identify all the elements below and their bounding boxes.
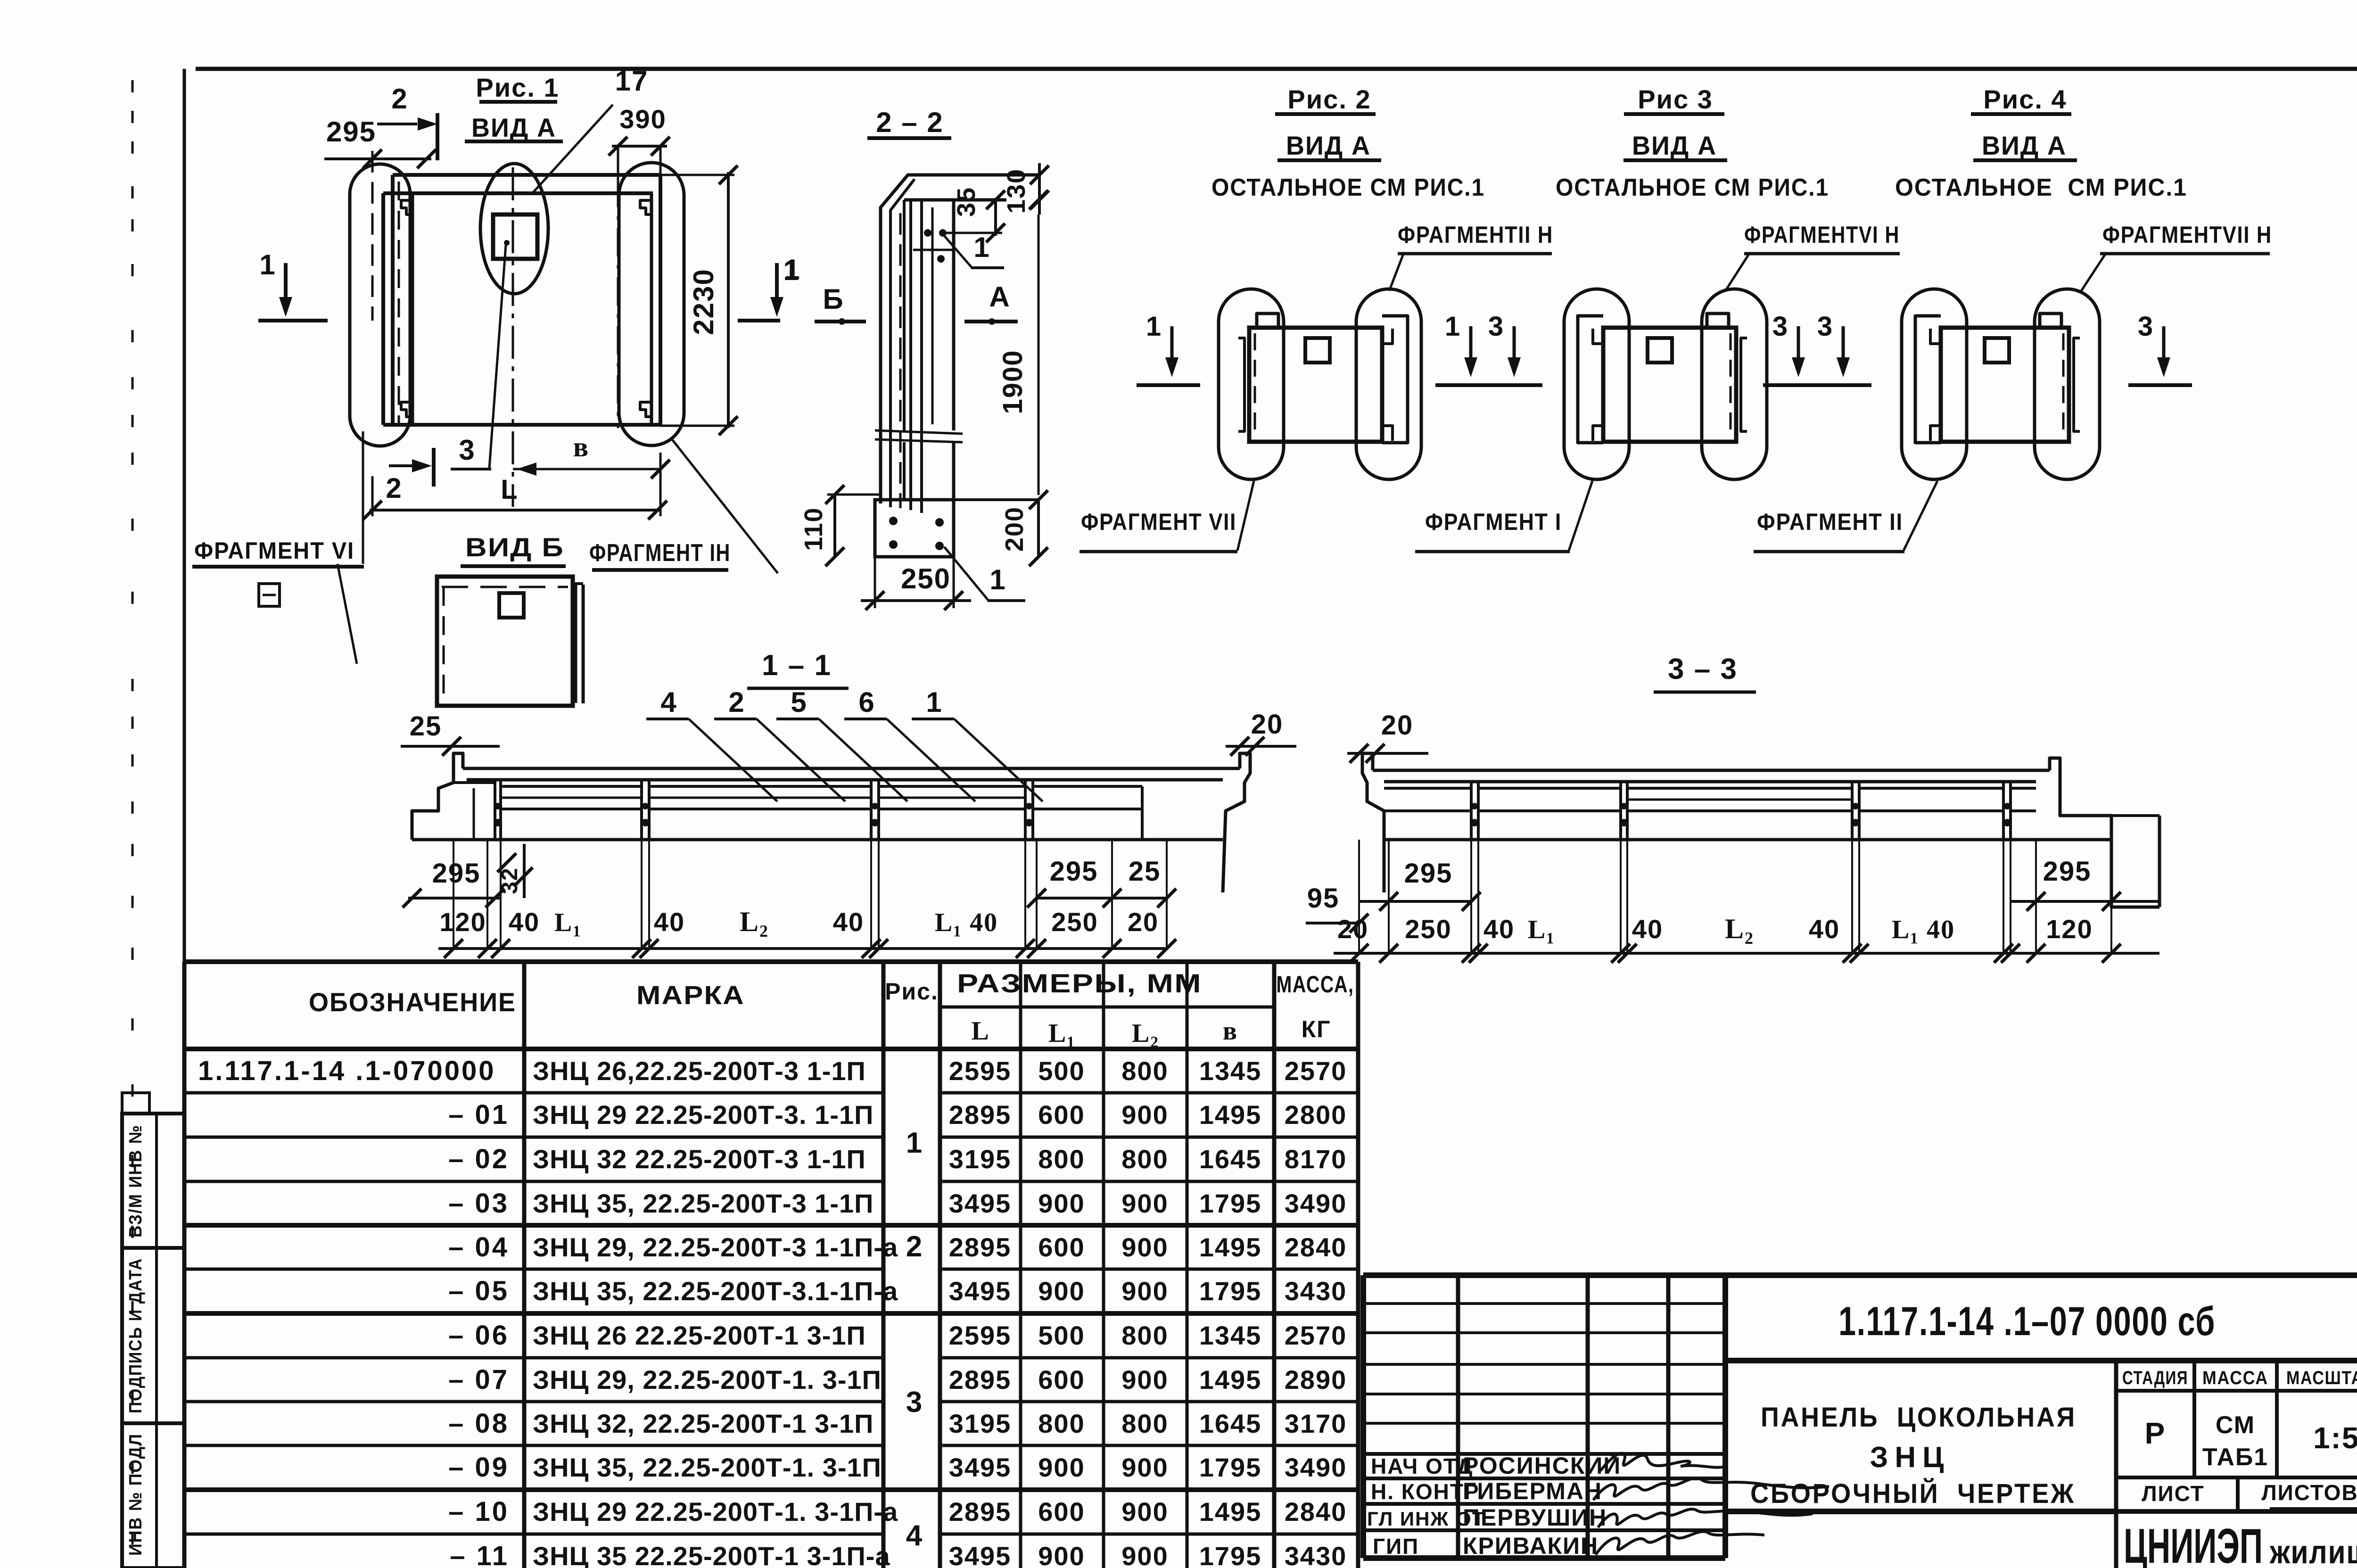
svg-text:1: 1	[926, 686, 942, 718]
svg-text:2 – 2: 2 – 2	[876, 107, 943, 138]
svg-text:4: 4	[906, 1519, 923, 1552]
svg-text:ВИД А: ВИД А	[1632, 131, 1717, 160]
2-2 panel line 2	[890, 179, 915, 507]
svg-text:ФРАГМЕНТ I: ФРАГМЕНТ I	[1425, 509, 1562, 535]
1-1 panel bands	[501, 785, 642, 788]
svg-text:17: 17	[615, 65, 649, 97]
svg-text:900: 900	[1121, 1188, 1168, 1218]
svg-text:95: 95	[1307, 883, 1340, 914]
panel right hidden edge dash-dot	[617, 179, 619, 428]
svg-text:1:50: 1:50	[2313, 1421, 2357, 1455]
svg-text:5: 5	[791, 686, 807, 718]
svg-text:1: 1	[783, 255, 799, 286]
title block outer	[1363, 1272, 2357, 1278]
lifting hole square	[493, 215, 537, 259]
svg-text:1345: 1345	[1199, 1320, 1262, 1350]
svg-text:– 09: – 09	[448, 1452, 509, 1483]
svg-text:40: 40	[833, 907, 864, 937]
2-2 wall top line	[908, 173, 1039, 177]
svg-text:2: 2	[728, 686, 745, 718]
svg-text:КРИВАКИН: КРИВАКИН	[1463, 1533, 1599, 1559]
svg-text:ЗНЦ: ЗНЦ	[1870, 1441, 1951, 1474]
svg-text:ФРАГМЕНТ VII: ФРАГМЕНТ VII	[1081, 509, 1236, 535]
svg-text:ВЗ/М ИНВ №: ВЗ/М ИНВ №	[126, 1124, 146, 1238]
svg-text:800: 800	[1121, 1144, 1168, 1174]
svg-text:ВИД Б: ВИД Б	[465, 532, 564, 562]
svg-text:ЗНЦ 35, 22.25-200Т-3 1-1П: ЗНЦ 35, 22.25-200Т-3 1-1П	[533, 1188, 874, 1218]
panel left hidden edge	[1254, 333, 1256, 437]
panel right edge profile	[2074, 338, 2080, 431]
svg-text:800: 800	[1121, 1056, 1168, 1086]
1-1 dim row	[438, 947, 1168, 950]
3-3 dim row	[1334, 952, 2159, 955]
table row lines	[184, 1091, 883, 1095]
svg-text:– 11: – 11	[450, 1541, 509, 1568]
Вид Б hole square	[499, 593, 524, 618]
Фрагмент VII leader	[1237, 481, 1254, 551]
svg-text:ВИД А: ВИД А	[1286, 131, 1371, 160]
svg-text:Рис. 1: Рис. 1	[476, 73, 559, 102]
2-2 base line extended	[875, 498, 1039, 501]
svg-text:295: 295	[326, 116, 376, 148]
svg-text:1495: 1495	[1199, 1497, 1262, 1527]
panel left hidden edge dashed	[398, 182, 400, 423]
2-2 upper bolts	[924, 229, 931, 237]
corner hook bottom-left	[401, 402, 412, 417]
svg-text:800: 800	[1121, 1409, 1168, 1438]
svg-text:20: 20	[1128, 907, 1159, 937]
svg-text:3495: 3495	[949, 1188, 1012, 1218]
svg-text:295: 295	[2043, 856, 2092, 887]
svg-text:Рис 3: Рис 3	[1638, 84, 1713, 114]
3-3 panel bands	[1478, 787, 1621, 790]
fragment oval left	[350, 164, 410, 446]
panel outline	[1603, 328, 1736, 442]
2-2 bolt tick	[913, 249, 954, 251]
svg-text:L₂: L₂	[1132, 1019, 1159, 1048]
svg-text:3: 3	[1772, 311, 1788, 342]
svg-text:800: 800	[1121, 1320, 1168, 1350]
svg-text:500: 500	[1038, 1320, 1085, 1350]
svg-text:600: 600	[1038, 1497, 1085, 1527]
corner hook bottom-right	[640, 402, 651, 417]
svg-text:ЗНЦ 29 22.25-200Т-3. 1-1П: ЗНЦ 29 22.25-200Т-3. 1-1П	[533, 1100, 874, 1130]
svg-text:3495: 3495	[949, 1276, 1012, 1306]
hole square (Рис.2)	[1305, 338, 1330, 363]
Фрагмент VI tail diagonal	[338, 564, 357, 664]
svg-text:40: 40	[1809, 914, 1840, 944]
svg-text:Рис.: Рис.	[885, 978, 939, 1005]
Фрагмент II leader	[1904, 481, 1937, 551]
svg-text:20: 20	[1337, 914, 1368, 944]
svg-text:2840: 2840	[1285, 1497, 1347, 1527]
1-1 top plate	[463, 767, 1240, 770]
svg-text:2895: 2895	[949, 1232, 1012, 1262]
svg-text:ФРАГМЕНТ IН: ФРАГМЕНТ IН	[589, 539, 731, 567]
svg-text:1645: 1645	[1199, 1144, 1262, 1174]
svg-text:ЗНЦ 35, 22.25-200Т-1. 3-1П: ЗНЦ 35, 22.25-200Т-1. 3-1П	[533, 1452, 882, 1482]
svg-text:1795: 1795	[1199, 1541, 1262, 1568]
svg-text:ФРАГМЕНТVII Н: ФРАГМЕНТVII Н	[2102, 222, 2272, 248]
svg-text:L₁ 40: L₁ 40	[935, 908, 998, 937]
callout 17 leader	[533, 105, 613, 192]
svg-text:1795: 1795	[1199, 1452, 1262, 1482]
hole square (Рис.3)	[1648, 338, 1672, 363]
svg-text:2: 2	[906, 1230, 923, 1263]
svg-text:жилищ: жилищ	[2269, 1534, 2357, 1568]
svg-text:МАССА,: МАССА,	[1277, 971, 1354, 998]
right channel bracket	[1382, 316, 1408, 443]
callout 3 leader	[489, 245, 506, 468]
stadia block vertical	[2114, 1361, 2118, 1568]
fragment oval left	[1902, 289, 1967, 479]
2-2 break lines	[875, 430, 963, 434]
hook bottom-left	[1930, 426, 1941, 441]
svg-text:1: 1	[973, 231, 990, 263]
panel outline	[1249, 328, 1382, 442]
svg-text:3170: 3170	[1285, 1409, 1347, 1438]
svg-text:120: 120	[439, 907, 486, 937]
name cell bottom thick line	[1725, 1509, 2116, 1514]
svg-text:1.117.1-14 .1-070000: 1.117.1-14 .1-070000	[198, 1056, 495, 1086]
svg-text:3430: 3430	[1285, 1276, 1347, 1306]
1-1 left end block	[412, 753, 463, 840]
3-3 right end	[2050, 758, 2159, 907]
2-2 panel hidden line	[899, 213, 902, 508]
svg-text:ЗНЦ 32 22.25-200Т-3 1-1П: ЗНЦ 32 22.25-200Т-3 1-1П	[533, 1144, 866, 1174]
svg-text:Б: Б	[823, 283, 844, 315]
svg-text:1: 1	[1146, 311, 1162, 342]
svg-text:ПОДПИСЬ И ДАТА: ПОДПИСЬ И ДАТА	[126, 1258, 146, 1413]
signature Кривакин	[1596, 1532, 1764, 1555]
svg-text:2: 2	[391, 83, 408, 115]
signature Росинский	[1600, 1453, 1723, 1471]
panel right outer edge	[659, 175, 662, 425]
svg-text:900: 900	[1121, 1365, 1168, 1395]
extension for 295	[371, 151, 374, 321]
svg-text:1900: 1900	[997, 349, 1028, 414]
svg-text:390: 390	[619, 104, 666, 134]
svg-text:– 02: – 02	[448, 1144, 509, 1174]
hole square (Рис.4)	[1985, 338, 2009, 363]
svg-text:ЗНЦ 29, 22.25-200Т-1. 3-1П: ЗНЦ 29, 22.25-200Т-1. 3-1П	[533, 1365, 882, 1395]
Вид Б right strip	[574, 584, 577, 703]
svg-text:600: 600	[1038, 1100, 1085, 1130]
svg-text:25: 25	[1129, 856, 1161, 887]
1-1 right step	[1223, 753, 1250, 892]
svg-text:900: 900	[1038, 1541, 1085, 1568]
panel left flange edge	[411, 193, 414, 425]
svg-text:2895: 2895	[949, 1100, 1012, 1130]
svg-text:2: 2	[386, 472, 402, 504]
frame left border	[183, 69, 186, 1568]
ФрагментVI н leader	[1725, 253, 1750, 291]
hook bottom-left	[1593, 426, 1603, 441]
svg-text:3495: 3495	[949, 1541, 1012, 1568]
svg-text:2595: 2595	[949, 1320, 1012, 1350]
hook top-left	[1593, 329, 1603, 344]
2-2 strip 5	[931, 207, 934, 424]
left channel bracket	[1915, 316, 1941, 443]
panel left inner edge	[381, 193, 385, 425]
table sub-header line	[940, 1006, 1274, 1009]
svg-text:1495: 1495	[1199, 1100, 1262, 1130]
svg-text:2895: 2895	[949, 1497, 1012, 1527]
svg-text:ФРАГМЕНТ VI: ФРАГМЕНТ VI	[194, 537, 354, 564]
3-3 first band	[1384, 787, 1471, 790]
svg-text:2840: 2840	[1285, 1232, 1347, 1262]
2-2 column lower part	[903, 442, 906, 500]
svg-text:3: 3	[906, 1386, 923, 1419]
svg-text:1495: 1495	[1199, 1365, 1262, 1395]
svg-text:в: в	[573, 431, 589, 462]
svg-text:L₂: L₂	[740, 906, 769, 937]
svg-text:130: 130	[1002, 168, 1030, 214]
svg-text:ЗНЦ 35, 22.25-200Т-3.1-1П-а: ЗНЦ 35, 22.25-200Т-3.1-1П-а	[533, 1276, 898, 1306]
svg-text:900: 900	[1121, 1452, 1168, 1482]
svg-text:ТАБ1: ТАБ1	[2202, 1444, 2268, 1471]
hook bottom-right	[1382, 426, 1393, 441]
svg-text:2570: 2570	[1285, 1320, 1347, 1350]
svg-text:ВИД А: ВИД А	[1982, 131, 2067, 160]
corner hook top-right	[640, 200, 651, 215]
svg-text:250: 250	[1051, 907, 1098, 937]
panel top-right tab	[2040, 314, 2061, 328]
svg-text:ОСТАЛЬНОЕ СМ РИС.1: ОСТАЛЬНОЕ СМ РИС.1	[1211, 174, 1485, 201]
3-3 left step	[1362, 753, 1384, 892]
svg-text:ФРАГМЕНТ II: ФРАГМЕНТ II	[1757, 509, 1903, 535]
svg-text:900: 900	[1121, 1100, 1168, 1130]
svg-text:L₁: L₁	[1528, 915, 1555, 944]
3-3 lower dim extensions	[1358, 840, 1360, 953]
svg-text:120: 120	[2046, 914, 2093, 944]
2-2 base bolts	[889, 517, 898, 525]
panel left edge profile	[1238, 338, 1244, 431]
svg-text:1: 1	[906, 1127, 923, 1159]
svg-text:ИНВ № ПОДЛ: ИНВ № ПОДЛ	[126, 1433, 146, 1556]
svg-text:800: 800	[1038, 1409, 1085, 1438]
2-2 base block	[875, 500, 954, 557]
svg-text:СТАДИЯ: СТАДИЯ	[2122, 1368, 2188, 1388]
svg-text:3: 3	[1817, 311, 1833, 342]
Фрагмент I leader	[1569, 481, 1592, 551]
svg-text:900: 900	[1038, 1452, 1085, 1482]
2-2 strip 3	[909, 200, 912, 510]
svg-text:900: 900	[1038, 1188, 1085, 1218]
stadia header row	[2116, 1389, 2357, 1393]
svg-text:110: 110	[799, 507, 828, 551]
svg-text:ЛИСТ: ЛИСТ	[2142, 1481, 2205, 1506]
panel left outer edge	[391, 175, 395, 425]
3-3 top plate	[1373, 769, 2050, 772]
fragment oval right	[1702, 289, 1767, 479]
svg-text:1345: 1345	[1199, 1056, 1262, 1086]
svg-text:2800: 2800	[1285, 1100, 1347, 1130]
svg-text:Рис. 2: Рис. 2	[1287, 84, 1371, 114]
svg-text:– 06: – 06	[448, 1320, 509, 1351]
panel top-right tab	[1707, 314, 1729, 328]
svg-text:3 – 3: 3 – 3	[1668, 653, 1738, 685]
side stamp divider 2	[122, 1421, 184, 1425]
svg-text:ОБОЗНАЧЕНИЕ: ОБОЗНАЧЕНИЕ	[309, 987, 516, 1017]
svg-text:600: 600	[1038, 1232, 1085, 1262]
svg-text:3: 3	[459, 434, 475, 466]
2-2 left outline slant	[881, 175, 915, 503]
svg-text:3430: 3430	[1285, 1541, 1347, 1568]
svg-text:35: 35	[952, 187, 981, 217]
svg-text:20: 20	[1251, 709, 1284, 740]
title block thin rows	[1363, 1302, 1725, 1305]
svg-text:1495: 1495	[1199, 1232, 1262, 1262]
ФрагментII н leader	[1389, 253, 1404, 291]
svg-text:250: 250	[1405, 914, 1451, 944]
svg-text:1.117.1-14 .1–07 0000 сб: 1.117.1-14 .1–07 0000 сб	[1838, 1299, 2216, 1344]
svg-text:L₁ 40: L₁ 40	[1892, 915, 1955, 944]
table outer top line	[184, 959, 1358, 964]
Вид Б left hidden edge	[443, 587, 445, 702]
svg-text:L₁: L₁	[1048, 1019, 1076, 1048]
side stamp divider 1	[122, 1246, 184, 1250]
stadia values row	[2116, 1476, 2357, 1479]
hook top-left	[1930, 329, 1941, 344]
1-1 ribs	[494, 780, 496, 840]
svg-text:3195: 3195	[949, 1144, 1012, 1174]
panel right flange edge	[650, 193, 653, 425]
svg-text:295: 295	[432, 858, 481, 889]
ФрагментVII н leader	[2081, 253, 2106, 291]
svg-text:20: 20	[1381, 710, 1414, 741]
3-3 ribs	[1470, 782, 1473, 840]
svg-text:900: 900	[1121, 1497, 1168, 1527]
лист row	[2116, 1509, 2357, 1514]
svg-text:ЗНЦ 35 22.25-200Т-1 3-1П-а: ЗНЦ 35 22.25-200Т-1 3-1П-а	[533, 1541, 890, 1568]
3-3 right block	[2158, 816, 2161, 907]
3-3 last band segment	[2011, 809, 2036, 812]
svg-text:ОСТАЛЬНОЕ СМ РИС.1: ОСТАЛЬНОЕ СМ РИС.1	[1556, 174, 1829, 201]
svg-text:ЦНИИЭП: ЦНИИЭП	[2124, 1519, 2263, 1568]
svg-text:СМ: СМ	[2216, 1411, 2255, 1439]
fragment oval around hole	[480, 164, 548, 294]
svg-text:в: в	[1223, 1016, 1238, 1046]
side stamp box	[122, 1114, 184, 1568]
svg-text:ФРАГМЕНТVI Н: ФРАГМЕНТVI Н	[1744, 222, 1900, 248]
svg-text:1795: 1795	[1199, 1188, 1262, 1218]
frame top border	[196, 67, 2357, 71]
svg-text:МАРКА: МАРКА	[636, 980, 745, 1010]
1-1 first band	[501, 785, 642, 788]
svg-text:40: 40	[1483, 914, 1515, 944]
svg-text:2230: 2230	[688, 268, 719, 335]
corner hook top-left	[401, 200, 412, 215]
svg-text:1: 1	[989, 564, 1006, 595]
svg-text:МАССА: МАССА	[2202, 1368, 2268, 1388]
fragment oval left	[1564, 289, 1629, 479]
svg-text:295: 295	[1404, 858, 1453, 889]
svg-text:ПЕРВУШИН: ПЕРВУШИН	[1463, 1504, 1607, 1531]
svg-text:3195: 3195	[949, 1409, 1012, 1438]
panel inner top line	[383, 191, 653, 195]
svg-text:КГ: КГ	[1302, 1016, 1331, 1042]
left channel bracket	[1578, 316, 1603, 443]
fragment oval right	[2035, 289, 2100, 479]
svg-text:РАЗМЕРЫ, ММ: РАЗМЕРЫ, ММ	[957, 968, 1202, 998]
Вид Б panel outline	[437, 577, 573, 706]
svg-text:2895: 2895	[949, 1365, 1012, 1395]
title block name rows	[1363, 1452, 1725, 1456]
1-1 right end block	[1141, 786, 1144, 840]
panel right hidden edge	[2062, 333, 2065, 437]
svg-text:– 07: – 07	[448, 1364, 509, 1395]
panel centre line dash-dot	[512, 167, 514, 507]
2-2 column left edge	[903, 200, 906, 430]
svg-text:ЗНЦ 32, 22.25-200Т-1 3-1П: ЗНЦ 32, 22.25-200Т-1 3-1П	[533, 1409, 874, 1438]
Фрагмент VI leader	[362, 431, 364, 564]
1-1 left block detail	[453, 783, 495, 840]
svg-text:Р: Р	[2145, 1416, 2166, 1450]
table header bottom line	[184, 1047, 1358, 1051]
svg-text:L₁: L₁	[554, 908, 582, 937]
svg-text:3: 3	[1488, 311, 1504, 342]
side stamp top mini box	[122, 1093, 149, 1114]
svg-text:4: 4	[660, 686, 677, 718]
svg-text:900: 900	[1121, 1276, 1168, 1306]
panel outer top line	[393, 173, 660, 177]
svg-text:– 08: – 08	[448, 1408, 509, 1439]
svg-text:2570: 2570	[1285, 1056, 1347, 1086]
hook top-right	[1382, 329, 1393, 344]
svg-text:8170: 8170	[1285, 1144, 1347, 1174]
2-2 column right edge	[952, 200, 956, 430]
svg-text:1 – 1: 1 – 1	[762, 649, 832, 682]
svg-text:ГИБЕРМАН: ГИБЕРМАН	[1463, 1478, 1602, 1504]
svg-text:900: 900	[1038, 1276, 1085, 1306]
svg-text:СБОРОЧНЫЙ ЧЕРТЕЖ: СБОРОЧНЫЙ ЧЕРТЕЖ	[1750, 1478, 2076, 1509]
svg-text:– 01: – 01	[448, 1099, 509, 1130]
svg-text:МАСШТАБ: МАСШТАБ	[2286, 1368, 2357, 1388]
small artifact box bottom-left	[259, 584, 280, 606]
document number cell	[1725, 1358, 2357, 1363]
svg-text:250: 250	[901, 563, 951, 594]
svg-text:L₂: L₂	[1725, 913, 1754, 944]
svg-text:ПАНЕЛЬ ЦОКОЛЬНАЯ: ПАНЕЛЬ ЦОКОЛЬНАЯ	[1761, 1402, 2077, 1433]
svg-text:6: 6	[858, 686, 875, 718]
svg-text:– 04: – 04	[448, 1232, 509, 1263]
left margin scan noise dashes	[132, 80, 134, 92]
svg-text:ЛИСТОВ: ЛИСТОВ	[2261, 1480, 2357, 1505]
side stamp inner vertical	[155, 1114, 158, 1568]
svg-text:900: 900	[1121, 1541, 1168, 1568]
table column lines	[182, 962, 187, 1568]
svg-text:ОСТАЛЬНОЕ СМ РИС.1: ОСТАЛЬНОЕ СМ РИС.1	[1895, 174, 2187, 201]
panel right hidden edge	[1730, 333, 1732, 437]
svg-text:ЗНЦ 29 22.25-200Т-1. 3-1П-а: ЗНЦ 29 22.25-200Т-1. 3-1П-а	[533, 1497, 898, 1527]
svg-text:– 03: – 03	[448, 1188, 509, 1219]
title block columns	[1456, 1275, 1460, 1558]
svg-text:2890: 2890	[1285, 1365, 1347, 1395]
svg-text:1795: 1795	[1199, 1276, 1262, 1306]
svg-text:ЗНЦ 26 22.25-200Т-1 3-1П: ЗНЦ 26 22.25-200Т-1 3-1П	[533, 1320, 866, 1350]
svg-text:L: L	[501, 474, 518, 505]
svg-text:L: L	[971, 1016, 989, 1046]
signature Первушин	[1598, 1509, 1813, 1527]
3-3 bottom line	[1384, 838, 2111, 842]
svg-text:1: 1	[1445, 311, 1461, 342]
svg-text:40: 40	[509, 907, 540, 937]
svg-text:3490: 3490	[1285, 1452, 1347, 1482]
svg-text:3495: 3495	[949, 1452, 1012, 1482]
fragment oval left	[1219, 289, 1284, 479]
svg-text:25: 25	[410, 711, 442, 742]
